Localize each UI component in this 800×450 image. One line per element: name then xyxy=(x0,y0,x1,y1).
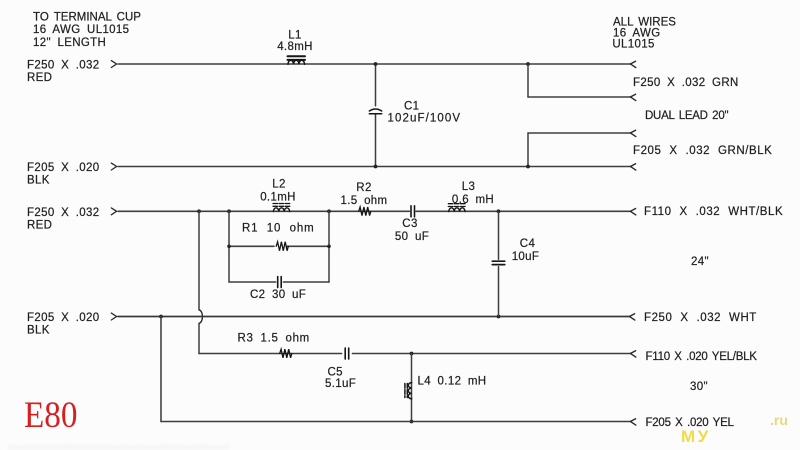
node connector arrow-out W5 xyxy=(630,419,635,425)
value label C4 xyxy=(512,238,540,263)
wire W5 bottom y=421.5 xyxy=(161,421,631,423)
note top-right all wires xyxy=(612,16,676,50)
svg-text:F110 X .020 YEL/BLK: F110 X .020 YEL/BLK xyxy=(646,351,758,363)
node connector arrow-out W2 xyxy=(630,164,635,170)
svg-text:C1: C1 xyxy=(404,101,419,113)
wire W5 left vertical x=161 xyxy=(160,317,162,422)
wire tap vertical x=199 upper xyxy=(198,211,200,309)
svg-text:10uF: 10uF xyxy=(512,251,540,263)
node connector arrow-out GRN/BLK stub xyxy=(630,130,635,136)
label YEL/BLK lead xyxy=(646,351,758,363)
junction dot W4/C4 xyxy=(497,315,501,319)
label wire W2 F205 BLK xyxy=(27,162,100,187)
wire C2 branch y=282 xyxy=(229,281,329,283)
svg-text:16 AWG UL1015: 16 AWG UL1015 xyxy=(33,24,129,36)
label 24in xyxy=(691,256,709,268)
wire parallel block right vertical xyxy=(328,211,330,282)
svg-text:BLK: BLK xyxy=(27,175,50,187)
junction dot R3/L4 xyxy=(410,352,414,356)
value label C2 xyxy=(250,289,306,301)
inductor L4 branch wire xyxy=(411,354,413,422)
svg-text:TO TERMINAL CUP: TO TERMINAL CUP xyxy=(33,11,141,23)
svg-text:1.5 ohm: 1.5 ohm xyxy=(340,195,387,207)
svg-text:102uF/100V: 102uF/100V xyxy=(388,113,462,125)
svg-text:R3 1.5 ohm: R3 1.5 ohm xyxy=(238,332,310,344)
svg-text:L4 0.12 mH: L4 0.12 mH xyxy=(418,375,487,387)
label wire W3 F250 RED xyxy=(27,207,100,232)
note top-left terminal cup xyxy=(33,11,141,49)
svg-text:30": 30" xyxy=(690,381,708,393)
svg-text:F250 X .032 WHT: F250 X .032 WHT xyxy=(644,312,757,324)
wire R3 branch y=353.5 xyxy=(199,353,631,355)
svg-text:DUAL LEAD 20": DUAL LEAD 20" xyxy=(645,110,728,122)
svg-text:C3: C3 xyxy=(402,218,417,230)
junction dot W3 tap x=199 xyxy=(197,209,201,213)
watermark .ru xyxy=(770,412,788,428)
svg-text:R1 10 ohm: R1 10 ohm xyxy=(242,222,314,234)
capacitor C3 plates xyxy=(411,206,415,217)
value label L4 xyxy=(418,375,487,387)
scan smear bottom xyxy=(8,443,628,450)
svg-text:L2: L2 xyxy=(272,178,286,190)
wire tap vertical x=199 lower xyxy=(198,323,200,353)
value label C5 xyxy=(325,366,356,390)
svg-text:UL1015: UL1015 xyxy=(612,38,654,50)
value label L3 xyxy=(452,181,494,206)
inductor L3 coil xyxy=(448,204,465,212)
svg-text:0.6 mH: 0.6 mH xyxy=(452,194,494,206)
junction dot R1 right xyxy=(327,245,331,249)
value label R2 xyxy=(340,182,387,207)
svg-text:F250 X .032 GRN: F250 X .032 GRN xyxy=(633,77,739,89)
wire parallel block left vertical xyxy=(228,211,230,282)
junction dot W3 block left xyxy=(227,209,231,213)
svg-text:BLK: BLK xyxy=(27,325,50,337)
svg-text:F205 X .020: F205 X .020 xyxy=(27,312,100,324)
value label C3 xyxy=(395,218,429,243)
wire GRN/BLK stub y=133 xyxy=(528,132,631,134)
node connector arrow-out W4 xyxy=(629,314,634,320)
value label L1 xyxy=(277,30,313,54)
svg-text:F205 X .020: F205 X .020 xyxy=(27,162,100,174)
svg-text:F205 X .032 GRN/BLK: F205 X .032 GRN/BLK xyxy=(633,145,772,157)
node connector arrow-out R3 branch xyxy=(630,351,635,357)
node connector arrow-out W1 xyxy=(630,61,635,67)
inductor L4 coil xyxy=(405,383,412,399)
svg-text:24": 24" xyxy=(691,256,709,268)
label GRN/BLK lead xyxy=(633,145,772,157)
label wire W4 F205 BLK xyxy=(27,312,100,337)
inductor L1 coil xyxy=(288,56,306,64)
value label R1 xyxy=(242,222,314,234)
wire W2 black return y=166.5 xyxy=(118,166,631,168)
wire GRN branch vertical xyxy=(527,64,529,97)
svg-text:4.8mH: 4.8mH xyxy=(277,41,313,53)
svg-text:C2 30 uF: C2 30 uF xyxy=(250,289,306,301)
value label C1 xyxy=(388,101,462,125)
svg-text:50 uF: 50 uF xyxy=(395,231,429,243)
junction dot W1 GRN branch xyxy=(526,62,530,66)
node connector arrow-in W4 xyxy=(111,313,116,320)
resistor R1 zigzag xyxy=(276,242,288,251)
svg-text:0.1mH: 0.1mH xyxy=(260,191,296,203)
capacitor C5 plates xyxy=(345,348,349,359)
label 30in xyxy=(690,381,708,393)
value label R3 xyxy=(238,332,310,344)
capacitor C2 plates xyxy=(278,277,282,288)
drawing number E80 xyxy=(24,397,77,435)
inductor L2 coil xyxy=(273,204,290,212)
svg-text:RED: RED xyxy=(27,219,52,231)
value label L2 xyxy=(260,178,296,203)
svg-text:F110 X .032 WHT/BLK: F110 X .032 WHT/BLK xyxy=(644,206,783,218)
resistor R3 zigzag xyxy=(280,349,292,358)
wire W1 top red feed y=64 xyxy=(118,63,631,65)
junction dot W2 GRN/BLK branch xyxy=(526,165,530,169)
wire W4 black return y=316.5 xyxy=(118,316,629,318)
label WHT/BLK lead xyxy=(644,206,783,218)
svg-text:F250 X .032: F250 X .032 xyxy=(27,60,100,72)
resistor R2 zigzag xyxy=(359,207,371,216)
svg-text:C5: C5 xyxy=(328,366,343,378)
node connector arrow-out W3 xyxy=(630,209,635,215)
wire hop over W4 xyxy=(199,310,202,324)
capacitor C4 plates xyxy=(492,261,504,264)
junction dot R1 left xyxy=(227,245,231,249)
svg-text:C4: C4 xyxy=(520,238,536,250)
node connector arrow-in W3 xyxy=(111,208,116,215)
capacitor C4 branch wire xyxy=(498,211,500,316)
junction dot W3/C4 xyxy=(497,209,501,213)
wire GRN/BLK branch vertical xyxy=(527,133,529,167)
node connector arrow-out GRN stub xyxy=(630,94,635,100)
svg-text:12" LENGTH: 12" LENGTH xyxy=(33,37,106,49)
svg-text:RED: RED xyxy=(27,72,52,84)
label dual lead 20in xyxy=(645,110,728,122)
junction dot W2/C1 xyxy=(374,165,378,169)
svg-text:L3: L3 xyxy=(462,181,476,193)
label WHT lead xyxy=(644,312,757,324)
label YEL lead xyxy=(646,417,735,429)
label GRN lead xyxy=(633,77,739,89)
capacitor C1 plates xyxy=(369,109,381,114)
junction dot W1/C1 xyxy=(374,62,378,66)
capacitor C1 vertical branch wire xyxy=(375,64,377,167)
svg-text:L1: L1 xyxy=(288,30,302,42)
watermark MY xyxy=(681,427,711,447)
node connector arrow-in W1 xyxy=(111,61,116,68)
wire GRN stub y=97 xyxy=(528,96,631,98)
node connector arrow-in W2 xyxy=(111,163,116,170)
junction dot L4/W5 xyxy=(410,420,414,424)
junction dot W3 block right xyxy=(327,209,331,213)
wire R1 branch y=246.3 xyxy=(229,245,329,247)
svg-text:R2: R2 xyxy=(356,182,371,194)
svg-text:F250 X .032: F250 X .032 xyxy=(27,207,100,219)
svg-text:5.1uF: 5.1uF xyxy=(325,378,356,390)
label wire W1 F250 RED xyxy=(27,60,100,85)
junction dot W4/W5 branch xyxy=(159,315,163,319)
wire W3 midrange feed y=211.3 xyxy=(118,210,631,212)
